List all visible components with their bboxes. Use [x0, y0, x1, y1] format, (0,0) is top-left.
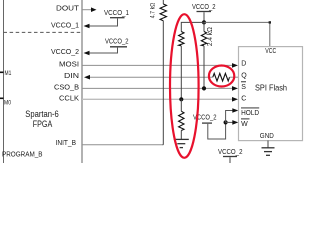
svg-text:VCCO_1: VCCO_1: [104, 10, 129, 17]
wire VCCO_2 to W/HOLD: [208, 122, 226, 139]
wire CCLK to flash C: [82, 98, 233, 100]
svg-text:FPGA: FPGA: [33, 119, 53, 129]
resistor 4.7k bottom lead down to INIT_B: [162, 21, 164, 145]
svg-text:W: W: [241, 121, 248, 128]
node junction on CCLK: [179, 97, 183, 101]
wire VCCO_2 stub to rail: [203, 12, 205, 22]
wire DIN from flash Q (left section): [89, 76, 213, 78]
lead down to ground: [180, 131, 182, 140]
wire DIN right section to flash Q: [230, 76, 239, 78]
lead down to lower resistor: [180, 99, 182, 111]
resistor 2.4k stub from rail: [203, 22, 205, 31]
SPI Flash block: [239, 47, 303, 141]
svg-text:VCC: VCC: [265, 48, 276, 55]
M1 pin stub: [0, 71, 4, 73]
svg-text:MOSI: MOSI: [59, 61, 79, 68]
svg-text:D: D: [241, 61, 246, 68]
wire rail to CCLK pullup column: [181, 22, 204, 31]
svg-text:VCCO_1: VCCO_1: [51, 22, 79, 29]
wire rail to flash VCC: [204, 22, 270, 46]
bank boundary dashed line: [4, 31, 83, 33]
svg-text:VCCO_2: VCCO_2: [218, 149, 243, 156]
svg-text:4.7 kΩ: 4.7 kΩ: [150, 3, 157, 19]
svg-text:DOUT: DOUT: [56, 5, 80, 12]
resistor CCLK pull-up zigzag: [179, 32, 184, 46]
svg-text:VCCO_2: VCCO_2: [51, 49, 79, 56]
svg-text:C: C: [241, 96, 246, 103]
wire VCCO_2 to FPGA: [89, 48, 118, 53]
lead down to CSO_B node: [203, 46, 205, 89]
red annotation ellipse (big, pull-up/down column): [170, 14, 199, 158]
svg-text:2.4 kΩ: 2.4 kΩ: [207, 27, 214, 46]
flash GND ground symbol: [267, 141, 269, 148]
wire HOLD branch: [226, 111, 234, 123]
red annotation ellipse (small, series resistor): [209, 66, 234, 87]
wire VCCO_1 to FPGA: [89, 19, 118, 27]
wire DOUT: [82, 9, 92, 11]
svg-text:S: S: [241, 84, 246, 91]
lead down to CCLK node: [180, 46, 182, 99]
svg-text:Q: Q: [241, 73, 247, 80]
wire INIT_B: [82, 144, 163, 146]
FPGA right edge: [81, 0, 83, 163]
svg-text:PROGRAM_B: PROGRAM_B: [2, 150, 43, 159]
svg-text:CSO_B: CSO_B: [54, 84, 79, 91]
node junction on W: [224, 120, 228, 124]
svg-text:DIN: DIN: [64, 73, 79, 80]
node junction top rail: [202, 20, 206, 24]
M0 pin stub: [0, 97, 4, 99]
svg-text:SPI Flash: SPI Flash: [255, 83, 287, 93]
svg-text:CCLK: CCLK: [59, 95, 79, 102]
wire CSO_B to flash S: [82, 87, 233, 89]
resistor 2.4k zigzag: [201, 32, 206, 46]
svg-text:INIT_B: INIT_B: [56, 140, 77, 147]
svg-text:VCCO_2: VCCO_2: [192, 4, 216, 11]
resistor 4.7k zigzag: [160, 4, 166, 21]
svg-text:M0: M0: [4, 100, 11, 107]
FPGA left edge: [3, 0, 5, 163]
svg-text:HOLD: HOLD: [241, 110, 259, 117]
wire MOSI to flash D: [82, 64, 233, 66]
wire W to flash: [226, 121, 234, 123]
resistor 4.7k on INIT_B: top lead: [162, 0, 164, 4]
svg-text:M1: M1: [5, 70, 12, 77]
ground symbol (CCLK pull-down): [174, 138, 189, 140]
svg-text:Spartan-6: Spartan-6: [25, 109, 59, 119]
series resistor on DIN/Q line: [213, 73, 230, 81]
resistor CCLK pull-down zigzag: [179, 111, 184, 130]
node junction on CSO_B: [202, 86, 206, 90]
svg-text:VCCO_2: VCCO_2: [105, 39, 129, 46]
svg-text:GND: GND: [260, 133, 274, 140]
